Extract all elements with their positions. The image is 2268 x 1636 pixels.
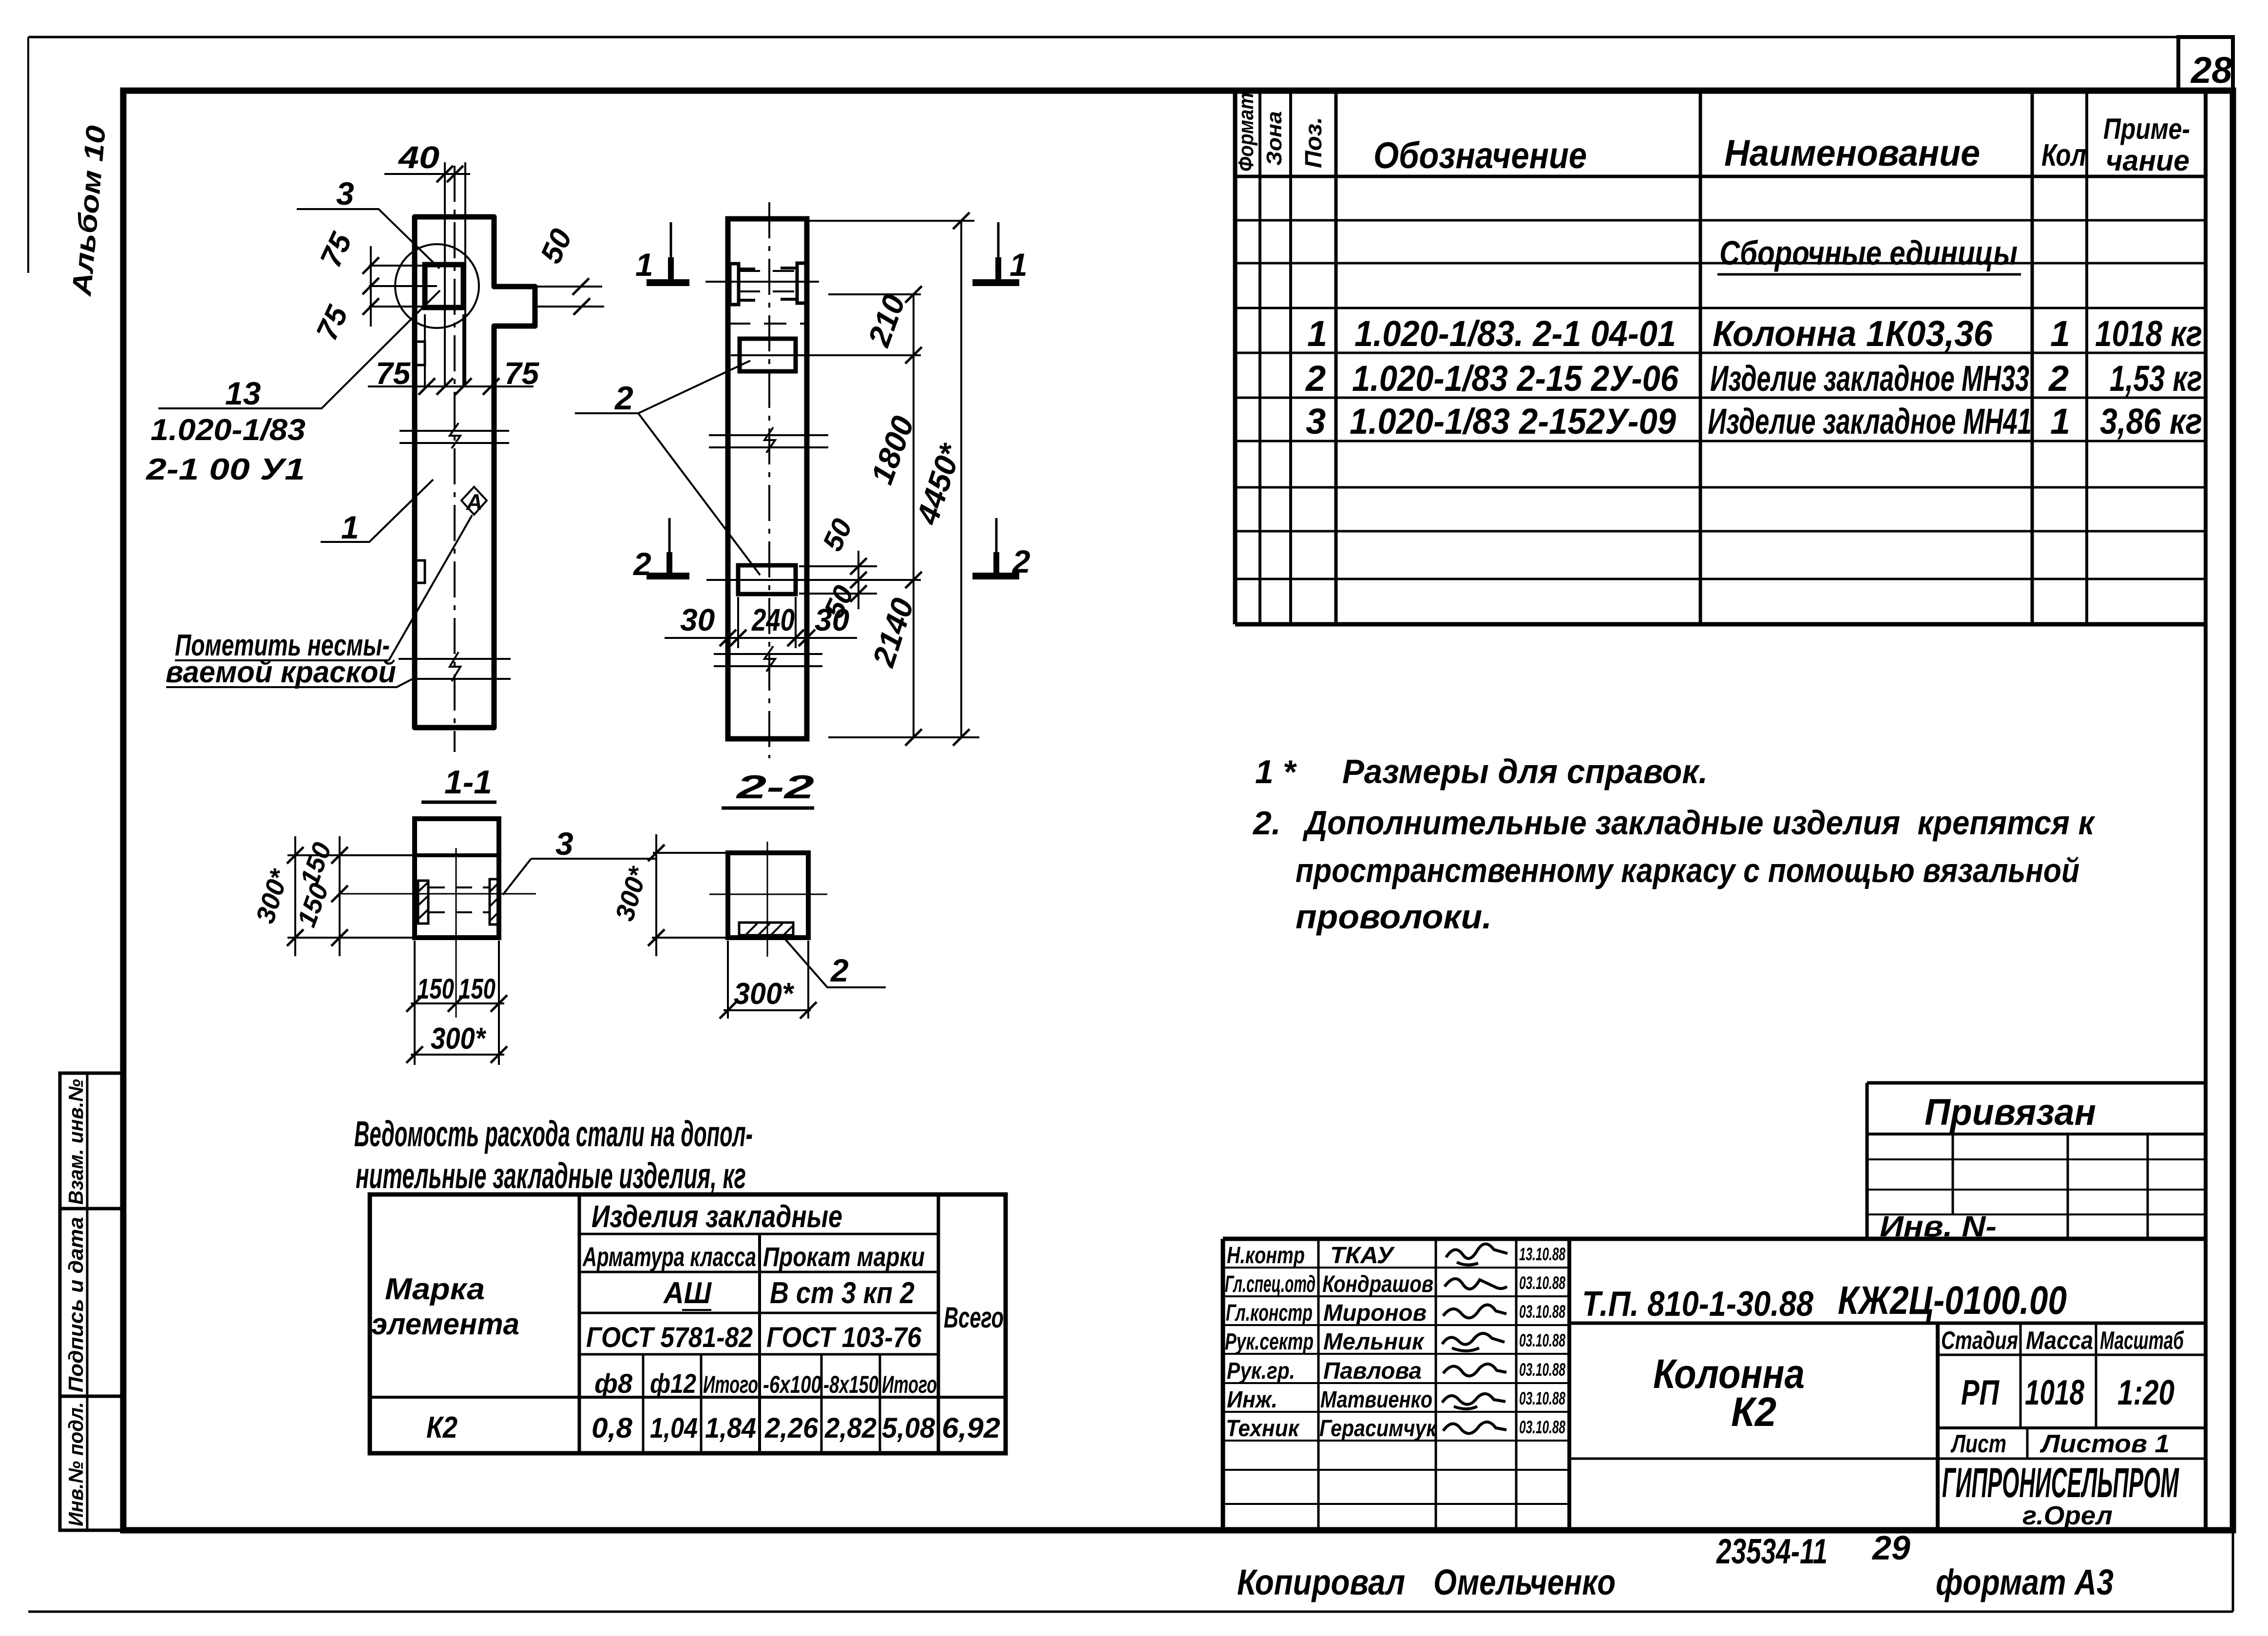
svg-text:Размеры для справок.: Размеры для справок. — [1342, 752, 1708, 790]
svg-text:210: 210 — [861, 290, 912, 351]
svg-text:300*: 300* — [431, 1022, 487, 1056]
extension lines bottom (1-1) — [415, 941, 499, 1065]
svg-text:2: 2 — [1011, 543, 1030, 579]
svg-text:03.10.88: 03.10.88 — [1519, 1330, 1565, 1350]
svg-text:Взам. инв.№: Взам. инв.№ — [64, 1079, 87, 1205]
svg-text:1 *: 1 * — [1255, 753, 1297, 790]
svg-text:Дополнительные закладные издел: Дополнительные закладные изделия крепятс… — [1302, 804, 2096, 842]
svg-text:30: 30 — [815, 602, 849, 637]
anchor bar line right — [464, 162, 466, 386]
svg-text:Инв.№ подл.: Инв.№ подл. — [64, 1402, 87, 1526]
svg-text:30: 30 — [680, 602, 715, 637]
dimension 300* left (1-1) — [287, 855, 426, 938]
break symbol bottom view 2 — [714, 654, 822, 666]
svg-text:1: 1 — [1010, 247, 1028, 283]
svg-text:Колонна: Колонна — [1653, 1351, 1805, 1397]
svg-text:2: 2 — [632, 546, 651, 582]
svg-text:Подпись и дата: Подпись и дата — [64, 1217, 87, 1392]
svg-text:1,84: 1,84 — [705, 1412, 756, 1444]
column axis view 2 — [768, 202, 770, 758]
binding box Привязан — [1867, 1083, 2206, 1240]
dimension 1800 — [913, 355, 915, 580]
svg-text:6,92: 6,92 — [942, 1412, 1000, 1444]
svg-text:2.: 2. — [1252, 805, 1281, 842]
svg-text:Приме-: Приме- — [2103, 113, 2190, 145]
svg-text:40: 40 — [398, 140, 439, 175]
left margin stamp box Взам. инв. № — [60, 1073, 122, 1209]
section mark 2 left — [668, 518, 671, 552]
plate 1 centre line — [731, 354, 921, 356]
leader 2 (view 2) — [575, 361, 760, 575]
svg-text:Всего: Всего — [944, 1301, 1004, 1334]
svg-text:Наименование: Наименование — [1724, 133, 1980, 174]
leader 3 (view 1) — [297, 209, 439, 269]
svg-text:Матвиенко: Матвиенко — [1320, 1387, 1432, 1413]
svg-text:Изделия закладные: Изделия закладные — [591, 1199, 842, 1234]
svg-text:1018 кг: 1018 кг — [2095, 313, 2202, 354]
svg-text:элемента: элемента — [371, 1308, 519, 1341]
svg-text:50: 50 — [534, 224, 579, 269]
svg-text:Рук.сектр: Рук.сектр — [1225, 1329, 1314, 1355]
svg-text:2: 2 — [2048, 358, 2069, 399]
dimension 210 — [828, 293, 921, 295]
svg-text:3: 3 — [1306, 401, 1326, 442]
break symbol upper view 1 — [400, 431, 509, 443]
detail circle — [395, 244, 479, 328]
section 1-1 left hatched plate — [418, 881, 428, 924]
svg-text:ГОСТ 5781-82: ГОСТ 5781-82 — [586, 1322, 753, 1353]
header Стадия Масса Масштаб — [1941, 1327, 2184, 1355]
svg-text:Герасимчук: Герасимчук — [1319, 1416, 1437, 1442]
dimension 50 right — [512, 287, 604, 307]
column axis view 1 — [454, 166, 456, 752]
svg-text:Н.контр: Н.контр — [1227, 1243, 1305, 1269]
svg-text:пространственному каркасу с по: пространственному каркасу с помощью вяза… — [1296, 851, 2079, 889]
svg-text:1.020-1/83 2-152У-09: 1.020-1/83 2-152У-09 — [1350, 401, 1676, 442]
plate 2 centre line — [706, 579, 921, 581]
svg-text:Гл.спец.отд: Гл.спец.отд — [1225, 1271, 1315, 1297]
embedded plate МН33 lower (pos 2) — [738, 565, 796, 594]
dimensions 150 150 left (1-1) — [339, 836, 341, 956]
svg-text:К2: К2 — [1731, 1389, 1776, 1435]
dimensions 75 75 bottom — [425, 314, 463, 386]
svg-text:75: 75 — [376, 356, 411, 391]
svg-text:23534-11: 23534-11 — [1715, 1532, 1828, 1571]
svg-text:Изделие закладное МН33: Изделие закладное МН33 — [1710, 358, 2029, 399]
svg-text:Лист: Лист — [1950, 1430, 2006, 1458]
svg-text:1.020-1/83: 1.020-1/83 — [151, 413, 305, 447]
svg-text:Зона: Зона — [1262, 111, 1286, 166]
svg-text:29: 29 — [1871, 1529, 1910, 1567]
section 2-2 vertical axis — [767, 842, 768, 957]
svg-text:В ст 3 кп 2: В ст 3 кп 2 — [770, 1276, 915, 1310]
svg-text:Сборочные единицы: Сборочные единицы — [1719, 234, 2018, 272]
top hook right — [797, 263, 807, 303]
hook flange stubs — [739, 268, 797, 300]
break symbol middle view 2 — [709, 435, 828, 447]
svg-text:13.10.88: 13.10.88 — [1519, 1244, 1565, 1264]
section 1-1 outline — [415, 819, 499, 938]
svg-text:Миронов: Миронов — [1323, 1300, 1427, 1326]
svg-text:2: 2 — [614, 380, 633, 417]
svg-text:4450*: 4450* — [909, 439, 969, 529]
dimensions 75 75 left — [369, 266, 437, 307]
svg-text:3: 3 — [336, 175, 354, 212]
svg-text:формат А3: формат А3 — [1936, 1562, 2114, 1602]
leader 1 (view 1) — [321, 480, 433, 542]
svg-text:1-1: 1-1 — [444, 764, 492, 801]
svg-text:РП: РП — [1961, 1373, 2000, 1412]
extension line top for 4450 — [809, 220, 974, 222]
svg-text:КЖ2Ц-0100.00: КЖ2Ц-0100.00 — [1838, 1278, 2067, 1323]
left edge notch lower — [415, 560, 425, 583]
embedded plate МН33 upper (pos 2) — [740, 339, 796, 371]
left margin stamp box Подпись и дата — [60, 1209, 122, 1396]
svg-text:50: 50 — [817, 514, 858, 556]
svg-text:300*: 300* — [734, 977, 795, 1011]
svg-text:Альбом 10: Альбом 10 — [66, 124, 111, 298]
dimension 300* left (2-2) — [652, 853, 728, 938]
specification table grid — [1235, 91, 2206, 1530]
svg-text:Мельник: Мельник — [1323, 1329, 1425, 1355]
svg-text:ГИПРОНИСЕЛЬПРОМ: ГИПРОНИСЕЛЬПРОМ — [1942, 1460, 2179, 1506]
svg-text:Павлова: Павлова — [1323, 1358, 1422, 1384]
svg-text:0,8: 0,8 — [591, 1412, 633, 1444]
svg-text:1018: 1018 — [2025, 1373, 2084, 1412]
dashed anchor lines top — [739, 271, 797, 291]
svg-text:Масштаб: Масштаб — [2100, 1327, 2184, 1355]
svg-text:Т.П. 810-1-30.88: Т.П. 810-1-30.88 — [1582, 1285, 1813, 1324]
leader 3 (section 1-1) — [503, 859, 655, 895]
svg-text:150: 150 — [417, 973, 454, 1005]
svg-text:Изделие закладное МН41: Изделие закладное МН41 — [1708, 401, 2032, 442]
section 2-2 outline — [728, 853, 808, 938]
svg-text:2: 2 — [1305, 358, 1326, 399]
overline on Ш of АIII — [682, 1309, 711, 1311]
leader line to mark A — [389, 515, 472, 660]
svg-text:1: 1 — [1307, 313, 1327, 354]
section mark 1 left — [670, 222, 672, 257]
svg-text:03.10.88: 03.10.88 — [1519, 1273, 1565, 1293]
svg-text:2-1 00 У1: 2-1 00 У1 — [146, 453, 305, 486]
sheet outer boundary left line — [27, 37, 29, 273]
svg-text:Омельченко: Омельченко — [1433, 1562, 1616, 1602]
svg-text:75: 75 — [504, 356, 540, 391]
dimension 2140 — [913, 580, 915, 737]
svg-text:Формат: Формат — [1234, 93, 1258, 172]
svg-text:Гл.констр: Гл.констр — [1226, 1300, 1313, 1326]
svg-text:3: 3 — [555, 826, 573, 862]
values РП 1018 1:20 — [1961, 1373, 2174, 1412]
svg-text:1: 1 — [2050, 401, 2070, 442]
svg-text:ТКАУ: ТКАУ — [1330, 1243, 1395, 1269]
dimension 4450* — [960, 221, 962, 737]
svg-text:1:20: 1:20 — [2117, 1373, 2174, 1412]
svg-text:ф8: ф8 — [594, 1368, 633, 1399]
section 1-1 vertical axis — [456, 848, 457, 1018]
mark A rhombus — [461, 487, 487, 515]
section 1-1 horizontal axis — [341, 893, 536, 895]
sheet outer boundary right line — [2232, 37, 2234, 1612]
top hook left — [730, 264, 739, 305]
svg-text:1.020-1/83 2-15 2У-06: 1.020-1/83 2-15 2У-06 — [1352, 358, 1679, 399]
svg-text:Кол: Кол — [2041, 137, 2086, 173]
svg-text:150: 150 — [292, 880, 334, 931]
svg-text:03.10.88: 03.10.88 — [1519, 1302, 1565, 1322]
svg-text:Прокат марки: Прокат марки — [763, 1241, 925, 1272]
svg-text:2,26: 2,26 — [764, 1412, 819, 1444]
svg-text:Инж.: Инж. — [1227, 1387, 1277, 1413]
svg-text:1: 1 — [341, 509, 359, 545]
left edge notch upper — [415, 342, 425, 365]
svg-text:03.10.88: 03.10.88 — [1519, 1417, 1565, 1437]
view 1: column K2 elevation outline with console — [415, 217, 535, 728]
svg-text:150: 150 — [458, 973, 496, 1005]
svg-text:Ведомость расхода стали на доп: Ведомость расхода стали на допол- — [354, 1114, 753, 1154]
svg-text:2,82: 2,82 — [824, 1412, 877, 1444]
svg-text:ваемой краской: ваемой краской — [166, 655, 396, 689]
section mark 2 right — [995, 518, 998, 552]
svg-text:75: 75 — [310, 300, 355, 346]
svg-text:проволоки.: проволоки. — [1296, 898, 1492, 936]
svg-text:А: А — [466, 489, 482, 515]
svg-text:Итого: Итого — [882, 1371, 937, 1398]
svg-text:Стадия: Стадия — [1941, 1327, 2018, 1355]
sheet outer boundary top line — [28, 36, 2233, 38]
svg-text:нительные закладные изделия, к: нительные закладные изделия, кг — [356, 1155, 746, 1196]
dimensions 30 240 30 — [738, 597, 796, 648]
anchor bar line left — [444, 162, 446, 386]
svg-text:г.Орел: г.Орел — [2022, 1501, 2113, 1530]
left margin stamp box Инв. № подл. — [60, 1396, 122, 1530]
svg-text:1.020-1/83. 2-1 04-01: 1.020-1/83. 2-1 04-01 — [1354, 313, 1676, 354]
dimension 300* bottom (2-2) — [728, 941, 808, 1019]
section 1-1 right hatched plate — [490, 879, 499, 924]
dimensions 150 150 bottom (1-1) — [411, 1002, 504, 1004]
svg-text:Колонна 1К03,36: Колонна 1К03,36 — [1713, 313, 1993, 354]
svg-text:2140: 2140 — [866, 594, 921, 672]
svg-text:АШ: АШ — [663, 1276, 712, 1310]
svg-text:ГОСТ 103-76: ГОСТ 103-76 — [766, 1322, 922, 1353]
svg-text:Масса: Масса — [2026, 1327, 2093, 1355]
signatures squiggles — [1442, 1244, 1507, 1433]
svg-text:240: 240 — [751, 602, 795, 637]
svg-text:Рук.гр.: Рук.гр. — [1227, 1358, 1295, 1384]
svg-text:1,53 кг: 1,53 кг — [2110, 358, 2202, 399]
section 2-2 hatched plate — [739, 923, 793, 935]
svg-text:300*: 300* — [250, 865, 295, 927]
break symbol lower view 1 — [399, 659, 511, 679]
svg-text:5,08: 5,08 — [882, 1412, 935, 1444]
embedded plate МН41 (pos 3) square — [425, 265, 463, 308]
svg-text:150: 150 — [295, 839, 337, 890]
svg-text:2: 2 — [830, 952, 849, 988]
section 1-1 inner ledge line — [415, 853, 499, 857]
svg-text:Марка: Марка — [385, 1272, 485, 1306]
svg-text:Копировал: Копировал — [1237, 1562, 1405, 1602]
svg-text:28: 28 — [2190, 50, 2232, 91]
svg-text:Итого: Итого — [703, 1371, 758, 1398]
svg-text:1: 1 — [635, 247, 653, 283]
svg-text:чание: чание — [2106, 144, 2190, 177]
section 2-2 horizontal axis — [709, 894, 827, 895]
svg-text:1,04: 1,04 — [650, 1412, 698, 1444]
dashed anchor line second level — [728, 323, 807, 325]
svg-text:3,86 кг: 3,86 кг — [2100, 401, 2202, 442]
leader 2 (section 2-2) — [783, 937, 886, 987]
steel consumption table grid — [370, 1194, 1006, 1453]
dimension 300* bottom (1-1) — [411, 1054, 504, 1056]
svg-text:300*: 300* — [610, 863, 653, 924]
svg-text:1800: 1800 — [864, 411, 920, 488]
svg-text:2-2: 2-2 — [735, 769, 815, 806]
svg-text:Листов 1: Листов 1 — [2039, 1430, 2170, 1458]
svg-text:Поз.: Поз. — [1301, 117, 1327, 168]
section mark 1 right — [997, 222, 1000, 257]
dimensions 50 50 at lower plate — [799, 566, 877, 594]
page number box — [2178, 37, 2233, 91]
svg-text:75: 75 — [314, 227, 359, 272]
svg-text:-8х150: -8х150 — [823, 1371, 878, 1398]
svg-text:03.10.88: 03.10.88 — [1519, 1388, 1565, 1408]
svg-text:ф12: ф12 — [650, 1368, 696, 1399]
svg-text:Обозначение: Обозначение — [1373, 135, 1587, 176]
leader 13 with document number — [158, 290, 440, 408]
svg-text:1: 1 — [2050, 313, 2070, 354]
dimension 40 — [384, 173, 470, 175]
svg-text:13: 13 — [225, 375, 261, 411]
underline under Сборочные единицы — [1717, 273, 2021, 276]
title block grid — [1223, 1239, 2206, 1530]
svg-text:Кондрашов: Кондрашов — [1322, 1271, 1433, 1297]
section 1-1 dashed anchor rods — [428, 887, 490, 912]
svg-text:03.10.88: 03.10.88 — [1519, 1360, 1565, 1380]
svg-text:Техник: Техник — [1226, 1416, 1300, 1442]
svg-text:-6х100: -6х100 — [763, 1371, 821, 1398]
svg-text:К2: К2 — [426, 1411, 457, 1444]
cutting plane trace line — [705, 281, 819, 283]
extension line bottom for 4450 and 2140 — [828, 736, 979, 738]
view 2: column K2 side elevation outline — [728, 219, 807, 739]
svg-text:Арматура класса: Арматура класса — [582, 1241, 756, 1272]
sheet outer boundary bottom line — [28, 1611, 2233, 1613]
svg-text:Привязан: Привязан — [1925, 1092, 2096, 1133]
